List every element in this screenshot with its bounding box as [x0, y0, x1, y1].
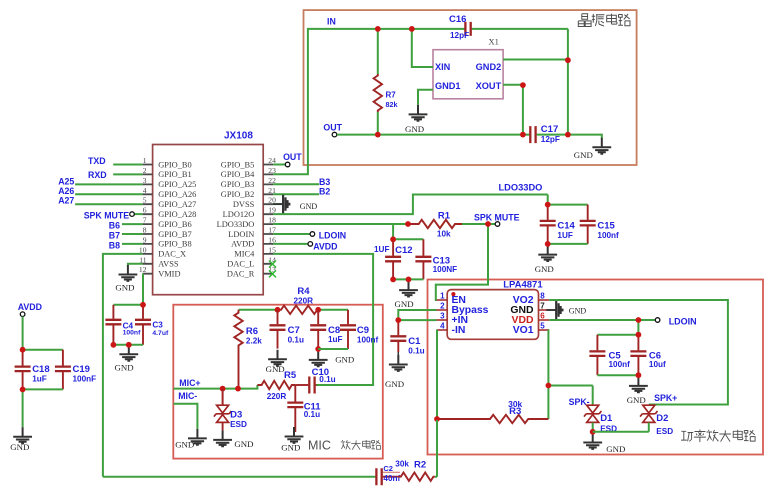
wire DAC_X pin10 down left column: [103, 254, 143, 477]
svg-text:C18: C18: [32, 364, 49, 375]
wire pin22 to B3: [273, 183, 319, 185]
svg-text:220R: 220R: [294, 297, 314, 306]
wire: OUT bottom rail: [337, 134, 529, 136]
svg-text:1UF: 1UF: [374, 245, 389, 254]
ground (MIC-): [175, 429, 207, 450]
wire: VDD drop to C5/C6: [637, 320, 639, 335]
junction ground tap C12/C13: [406, 277, 412, 283]
capacitor C17: [530, 126, 535, 143]
svg-text:XOUT: XOUT: [476, 81, 502, 91]
capacitor C12: [385, 239, 401, 279]
svg-text:-IN: -IN: [452, 325, 466, 336]
wire: C5/C6 bottom rail: [597, 374, 638, 376]
svg-text:OUT: OUT: [283, 152, 302, 162]
svg-text:GND: GND: [115, 283, 134, 293]
svg-text:LDO33DO: LDO33DO: [499, 183, 543, 193]
svg-text:MIC: MIC: [308, 439, 331, 453]
svg-text:B8: B8: [109, 240, 120, 250]
wire: C4/C3 bottom rail: [113, 344, 143, 346]
svg-text:GPIO_B6: GPIO_B6: [158, 220, 192, 229]
svg-text:GPIO_B2: GPIO_B2: [221, 190, 255, 199]
wire: +IN (pin3) to C1 node: [398, 319, 436, 321]
svg-text:R2: R2: [414, 460, 426, 471]
junction XIN column: [409, 26, 415, 32]
svg-text:1UF: 1UF: [557, 231, 572, 240]
svg-text:R5: R5: [284, 370, 297, 381]
junction R7 bottom: [375, 132, 381, 138]
terminal SPK MUTE (right): [495, 222, 500, 227]
svg-text:GND: GND: [574, 150, 593, 160]
svg-text:TXD: TXD: [88, 156, 106, 166]
svg-text:GPIO_B1: GPIO_B1: [158, 170, 192, 179]
svg-text:GPIO_B4: GPIO_B4: [221, 170, 255, 179]
svg-text:23: 23: [268, 166, 276, 175]
wire RXD to pin2: [113, 173, 142, 175]
wire pin18 LDO33DO to R1: [273, 223, 409, 225]
svg-text:AVDD: AVDD: [18, 302, 42, 312]
svg-text:GPIO_A28: GPIO_A28: [158, 210, 196, 219]
junction XOUT: [520, 82, 526, 88]
svg-text:AVDD: AVDD: [231, 240, 254, 249]
junction C14 bottom: [545, 241, 551, 247]
svg-text:R1: R1: [438, 210, 451, 221]
svg-text:10k: 10k: [437, 230, 451, 239]
wire: VO2 (pin8) loop to D2 / SPK+: [549, 300, 728, 405]
svg-text:C17: C17: [541, 124, 558, 135]
capacitor C9: [340, 310, 379, 349]
capacitor C15: [580, 205, 619, 244]
wire: AVDD down: [22, 317, 24, 350]
svg-text:10uf: 10uf: [649, 360, 666, 369]
svg-text:100NF: 100NF: [433, 265, 458, 274]
svg-text:6: 6: [143, 206, 147, 215]
junction ground tap C4/C3: [126, 342, 132, 348]
wire: C14/C15 bottom rail: [548, 243, 588, 245]
wire: C4/C3 top rail: [113, 304, 143, 306]
diode D2 (ESD): [640, 405, 673, 436]
svg-text:OUT: OUT: [323, 122, 342, 132]
ground (C7): [266, 350, 287, 374]
ground (JX108 AVSS): [115, 265, 137, 293]
capacitor C8: [310, 310, 342, 349]
svg-text:SPK MUTE: SPK MUTE: [474, 212, 520, 222]
svg-text:MIC+: MIC+: [179, 378, 200, 388]
svg-text:B6: B6: [109, 221, 120, 231]
svg-text:LDO33DO: LDO33DO: [217, 220, 255, 229]
ground (crystal right): [592, 138, 611, 154]
wire: C18/C19 bottom rail: [23, 388, 63, 390]
ground (C1): [385, 355, 408, 389]
junction R7 top: [375, 26, 381, 32]
svg-text:0.1u: 0.1u: [319, 375, 335, 384]
svg-text:GND1: GND1: [435, 81, 461, 91]
wire SPK MUTE to pin6: [134, 213, 142, 215]
capacitor C3: [135, 305, 169, 345]
svg-text:C15: C15: [597, 220, 615, 231]
svg-text:100nf: 100nf: [357, 335, 379, 344]
wire R1 to SPK MUTE terminal: [462, 223, 495, 225]
junction C8/C9 bottom: [315, 346, 321, 352]
diode D3 (ESD): [214, 405, 247, 429]
svg-text:AVSS: AVSS: [158, 260, 179, 269]
svg-text:GND: GND: [175, 440, 194, 450]
wire pin19 LDO12O up to LDO33DO rail: [273, 195, 547, 215]
svg-text:GND: GND: [300, 202, 318, 211]
terminal AVDD (left): [20, 312, 25, 317]
capacitor C1: [390, 320, 424, 355]
svg-text:B3: B3: [319, 177, 330, 187]
capacitor C4: [105, 305, 141, 345]
svg-text:GND: GND: [627, 395, 646, 405]
block frame: crystal oscillator circuit: [304, 10, 637, 165]
LPA4871 right pin stubs and numbers 8,7,6,5: [539, 292, 550, 331]
resistor R2 30k: [398, 473, 435, 481]
svg-text:R3: R3: [509, 406, 521, 417]
junction GND2 column: [565, 57, 571, 63]
wire: C12/C13 top rail: [393, 238, 423, 240]
svg-text:C2: C2: [383, 464, 393, 473]
capacitor C10: [295, 377, 316, 394]
svg-text:AVDD: AVDD: [313, 242, 337, 252]
diode D1 (ESD): [584, 405, 617, 433]
svg-text:XIN: XIN: [435, 62, 451, 72]
svg-text:R7: R7: [386, 90, 397, 99]
wire: R4 left rail from R6 top: [239, 309, 278, 311]
title text 功率放大电路 (power amplifier circuit): [681, 430, 755, 443]
junction VO1/SPK-/R3: [546, 383, 552, 389]
wire B6 to pin7: [122, 223, 143, 225]
svg-text:C1: C1: [408, 336, 421, 347]
wire TXD to pin1: [113, 164, 142, 166]
svg-text:GND: GND: [115, 363, 134, 373]
svg-text:C14: C14: [557, 220, 575, 231]
svg-text:C16: C16: [449, 14, 466, 25]
svg-text:LDOIN: LDOIN: [319, 231, 346, 241]
capacitor C16: [465, 22, 470, 36]
wire: XIN to top rail: [412, 29, 433, 67]
svg-text:100nF: 100nF: [73, 375, 97, 384]
wire: JX108 pin23 GPIO_B4 up to IN net / crystal top rail: [273, 29, 465, 174]
ground (C5/C6): [627, 376, 648, 405]
wire: D1-D2 bottom tie: [593, 431, 649, 433]
svg-text:GND: GND: [395, 299, 414, 309]
svg-text:LDOIN: LDOIN: [228, 230, 254, 239]
svg-text:D1: D1: [600, 413, 613, 424]
capacitor C5: [589, 335, 630, 376]
junction LDO33DO column: [405, 221, 411, 227]
wire: -IN stub join: [436, 329, 439, 331]
capacitor C14: [540, 205, 576, 244]
wire: D2 bottom lead: [648, 423, 650, 432]
ground (X1 GND1): [405, 105, 427, 134]
svg-text:ESD: ESD: [230, 420, 247, 429]
wire AVSS pin11 to ground: [128, 264, 143, 266]
svg-text:220R: 220R: [267, 392, 287, 401]
svg-text:1uF: 1uF: [32, 375, 47, 384]
wire pin24 to OUT terminal: [273, 164, 285, 166]
wire: bottom rail from DAC_X column: [103, 476, 376, 478]
svg-text:12pF: 12pF: [450, 31, 469, 40]
svg-text:B2: B2: [319, 187, 330, 197]
ground (DVSS, sideways): [273, 195, 317, 214]
LPA4871 pin names: [452, 295, 534, 336]
junction D1 bottom: [590, 429, 596, 435]
svg-text:1: 1: [440, 292, 445, 301]
terminal AVDD (JX108): [308, 242, 313, 247]
svg-text:C7: C7: [288, 325, 300, 336]
wire: SPK MUTE down to EN (pin1): [436, 224, 488, 300]
wire: R7 bottom lead: [377, 112, 379, 135]
svg-text:GND: GND: [405, 124, 424, 134]
svg-text:C9: C9: [357, 325, 369, 336]
junction MIC+/D3: [220, 386, 226, 392]
ground (C12/C13): [395, 281, 418, 309]
svg-text:100nf: 100nf: [597, 231, 619, 240]
wire: Bypass (pin2) to C1 node: [398, 310, 436, 320]
wire: C14/C15 top rail: [548, 204, 588, 206]
svg-text:GPIO_B0: GPIO_B0: [158, 160, 192, 169]
svg-text:GND: GND: [10, 442, 29, 452]
svg-text:8: 8: [540, 292, 545, 301]
wire: GND2 to right column: [503, 59, 568, 61]
ground (C11): [281, 427, 303, 452]
svg-text:2: 2: [143, 166, 147, 175]
svg-text:GND: GND: [266, 364, 285, 374]
svg-text:RXD: RXD: [88, 170, 107, 180]
svg-text:DAC_R: DAC_R: [227, 270, 255, 279]
capacitor C6: [630, 335, 666, 376]
svg-text:R6: R6: [246, 326, 258, 337]
resistor R4 220R: [278, 306, 319, 314]
svg-text:7: 7: [540, 302, 545, 311]
resistor R6 2.2k: [234, 310, 242, 389]
title glyphs 放大电路: [341, 440, 381, 450]
junction SPK MUTE net: [485, 221, 491, 227]
wire: R4 right to C9: [318, 309, 348, 311]
JX108 left pin stubs, numbers 1-12 and names: [139, 156, 196, 279]
svg-text:JX108: JX108: [224, 131, 253, 142]
svg-text:VMID: VMID: [158, 270, 180, 279]
svg-text:7: 7: [143, 216, 147, 225]
wire: C12 drop from LDO33DO net: [392, 224, 394, 239]
svg-text:3: 3: [440, 312, 445, 321]
svg-text:DVSS: DVSS: [233, 200, 255, 209]
crystal X1 body: [433, 50, 503, 99]
svg-text:GND: GND: [535, 264, 554, 274]
svg-text:6: 6: [540, 312, 545, 321]
svg-text:GND: GND: [335, 354, 354, 364]
wire: LDO33DO rail down to C14: [547, 195, 549, 205]
capacitor C2: [375, 468, 397, 485]
wire VMID pin12 down to C4/C3: [142, 274, 144, 305]
wire: R7 top lead: [377, 29, 379, 74]
svg-text:B7: B7: [109, 231, 120, 241]
svg-text:DAC_X: DAC_X: [158, 250, 186, 259]
svg-text:MIC4: MIC4: [234, 250, 255, 259]
junction C12 top: [390, 236, 396, 242]
svg-text:82k: 82k: [386, 100, 398, 109]
junction Bypass/+IN/C1: [395, 317, 401, 323]
LPA4871 left pin stubs and numbers 1-4: [437, 292, 448, 331]
wire: D1 top lead: [592, 386, 594, 406]
svg-text:SPK MUTE: SPK MUTE: [84, 210, 130, 220]
wire: C12/C13 bottom rail: [393, 278, 423, 280]
svg-text:GPIO_B5: GPIO_B5: [221, 160, 255, 169]
svg-text:4.7uf: 4.7uf: [152, 330, 169, 337]
capacitor C13: [415, 239, 457, 279]
junction right column bottom: [565, 132, 571, 138]
junction VMID/C3 top: [140, 302, 146, 308]
wire: D1 bottom lead: [592, 423, 594, 432]
svg-text:D2: D2: [656, 413, 668, 424]
svg-text:8: 8: [143, 226, 147, 235]
wire: C5/C6 top rail: [597, 334, 638, 336]
svg-text:5: 5: [540, 322, 545, 331]
ground (AVDD rail): [10, 427, 32, 452]
svg-text:GND: GND: [606, 444, 625, 454]
wire: -IN column down to R2: [436, 330, 438, 477]
title text 晶振电路 (crystal oscillator circuit): [578, 14, 630, 27]
junction C14 top: [545, 202, 551, 208]
svg-text:GND: GND: [234, 439, 253, 449]
svg-text:12pF: 12pF: [541, 135, 560, 144]
block frame: MIC amplifier circuit: [173, 305, 382, 459]
terminal LDOIN (right): [655, 318, 660, 323]
wire: D2 top lead: [648, 404, 650, 407]
svg-text:LDO12O: LDO12O: [223, 210, 255, 219]
wire A26 to pin4: [75, 193, 143, 195]
capacitor C18: [15, 350, 50, 390]
capacitor C11: [294, 385, 296, 402]
wire: right column down to OUT rail: [567, 29, 569, 135]
svg-text:GPIO_A27: GPIO_A27: [158, 200, 196, 209]
junction C6 bottom: [636, 372, 642, 378]
wire: C18/C19 top rail: [23, 349, 63, 351]
wire: SPK- to D1: [548, 385, 592, 387]
svg-text:R4: R4: [297, 286, 310, 297]
ground (LPA4871 pin7, sideways): [546, 301, 586, 320]
terminal LDOIN (JX108): [310, 232, 315, 237]
wire pin16 to AVDD terminal: [273, 243, 308, 245]
junction C4 bottom: [111, 342, 117, 348]
no-connect X marks on pins 14,13 (DAC_L, DAC_R): [269, 261, 276, 278]
svg-text:0.1u: 0.1u: [288, 335, 304, 344]
junction C12 bottom: [390, 277, 396, 283]
svg-text:LPA4871: LPA4871: [503, 280, 543, 291]
junction C6 top: [636, 332, 642, 338]
svg-text:4: 4: [440, 322, 445, 331]
wire pin20 DVSS to ground: [273, 203, 283, 205]
svg-text:C19: C19: [73, 364, 90, 375]
block frame: power amplifier circuit: [428, 280, 764, 455]
svg-text:GND2: GND2: [476, 62, 502, 72]
svg-text:C3: C3: [152, 321, 163, 330]
junction MIC+/R6: [235, 386, 241, 392]
ground (D1): [583, 433, 625, 454]
resistor R3 30k: [437, 415, 548, 423]
wire: down to ground: [22, 389, 24, 427]
wire: VO1 (pin5) down: [547, 330, 550, 419]
ground (C4/C3): [115, 345, 139, 373]
terminal SPK MUTE (left): [130, 212, 135, 217]
svg-text:100nf: 100nf: [609, 360, 631, 369]
wire: XOUT column down: [522, 85, 524, 135]
svg-text:0.1u: 0.1u: [408, 347, 424, 356]
JX108 right pin stubs, numbers 24-13 and names: [217, 156, 276, 279]
LPA4871 pin1 marker dot: [451, 292, 455, 296]
svg-text:GND: GND: [385, 379, 404, 389]
svg-text:30k: 30k: [395, 460, 409, 469]
svg-text:GPIO_B8: GPIO_B8: [158, 240, 192, 249]
svg-text:1uF: 1uF: [328, 335, 343, 344]
svg-text:9: 9: [143, 235, 147, 244]
wire B7 to pin8: [122, 233, 143, 235]
wire: MIC- to ground: [174, 404, 198, 429]
terminal OUT (crystal): [332, 132, 337, 137]
wire A25 to pin3: [75, 183, 143, 185]
resistor R5 220R: [257, 381, 295, 389]
svg-text:40nf: 40nf: [383, 474, 400, 483]
svg-text:5: 5: [143, 196, 147, 205]
wire: C8/C9 bottom tie: [318, 348, 348, 350]
svg-text:LDOIN: LDOIN: [669, 316, 697, 326]
svg-text:SPK+: SPK+: [654, 393, 677, 403]
wire: VDD (pin6) to LDOIN terminal: [549, 319, 655, 321]
svg-text:C12: C12: [395, 245, 412, 256]
svg-text:GPIO_A26: GPIO_A26: [158, 190, 196, 199]
wire: GND1 down: [418, 90, 433, 105]
junction C18 top: [20, 347, 26, 353]
svg-text:0.1u: 0.1u: [304, 410, 320, 419]
svg-text:GND: GND: [281, 442, 300, 452]
wire: R2 up to -IN node: [435, 420, 437, 477]
junction C18 bottom: [20, 387, 26, 393]
svg-text:2.2k: 2.2k: [246, 337, 262, 346]
terminal OUT (JX108): [285, 162, 290, 167]
svg-text:A26: A26: [58, 186, 74, 196]
svg-text:X1: X1: [489, 36, 499, 46]
junction VDD/C5C6: [636, 317, 642, 323]
svg-text:2: 2: [440, 302, 445, 311]
resistor R1 10k: [410, 220, 463, 228]
junction R4 left / C7: [275, 307, 281, 313]
svg-text:GPIO_B3: GPIO_B3: [221, 180, 255, 189]
junction XOUT bottom: [520, 132, 526, 138]
wire pin15 MIC4 down to C10: [273, 254, 373, 385]
svg-text:IN: IN: [327, 16, 336, 26]
svg-text:3: 3: [143, 176, 147, 185]
ground (C14/C15): [535, 245, 557, 274]
svg-text:4: 4: [143, 186, 147, 195]
svg-text:ESD: ESD: [656, 427, 673, 436]
wire: D3 top lead: [222, 389, 224, 405]
svg-text:MIC-: MIC-: [178, 391, 197, 401]
svg-text:A27: A27: [58, 196, 74, 206]
svg-text:GND: GND: [569, 307, 587, 316]
svg-text:100nf: 100nf: [123, 330, 141, 337]
IC LPA4871 body: [447, 290, 538, 340]
wire pin21 to B2: [273, 193, 319, 195]
svg-text:DAC_L: DAC_L: [227, 260, 254, 269]
svg-text:VO1: VO1: [513, 325, 534, 336]
wire: MIC+ rail: [174, 385, 258, 389]
wire: XOUT stub: [503, 84, 523, 86]
wire B8 to pin9: [122, 243, 143, 245]
capacitor C7: [270, 310, 304, 349]
svg-text:1: 1: [143, 156, 147, 165]
junction -IN/R3/R2: [434, 416, 440, 422]
wire: crystal top rail right of C16: [472, 28, 568, 30]
